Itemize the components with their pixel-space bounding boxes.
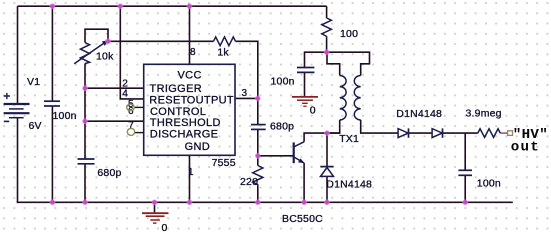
junction threshold node [82, 118, 88, 124]
svg-text:1k: 1k [217, 46, 229, 58]
svg-text:D1N4148: D1N4148 [326, 178, 372, 190]
svg-text:out: out [511, 139, 540, 155]
svg-text:V1: V1 [27, 76, 40, 88]
resistor R2 1k [214, 37, 236, 46]
wire pot bottom to cap 680p C2 and rail [84, 64, 86, 203]
junction rail at C5 [462, 199, 468, 205]
svg-text:7555: 7555 [212, 157, 236, 169]
wire 3.9meg to HV port [500, 132, 507, 134]
svg-text:0: 0 [162, 222, 168, 234]
wire base node down through R 220 to rail [257, 156, 259, 203]
wire pin3 node down through C3 680p to base node [257, 98, 259, 155]
wire pin 3 OUTPUT stub [235, 97, 258, 99]
wire C4 100n bottom to ground 0 [304, 73, 306, 97]
wire transformer primary bottom stub [326, 120, 340, 133]
resistor R3 220 [253, 166, 263, 187]
wire C5 100n bottom lead to rail [464, 175, 466, 202]
capacitor C4 100n [297, 68, 314, 73]
timer IC U1 7555 box [144, 64, 235, 155]
junction rail at D1 [324, 199, 330, 205]
ground 0 (near C4) [292, 97, 318, 106]
svg-text:100n: 100n [271, 76, 295, 88]
junction rail at C2 bottom [82, 199, 88, 205]
junction rail at C1 bottom [49, 199, 55, 205]
wire RESET drop from rail to pin 4 [120, 6, 143, 99]
wire transistor emitter down to rail [303, 163, 305, 202]
wire battery bottom lead [17, 118, 19, 203]
svg-text:100n: 100n [477, 177, 501, 189]
interface port HV [508, 131, 513, 136]
wire transformer secondary bottom to diode chain [361, 120, 398, 133]
svg-text:RESET: RESET [149, 94, 187, 106]
svg-text:4: 4 [122, 89, 128, 100]
svg-text:1: 1 [188, 167, 194, 178]
junction base node [255, 153, 261, 159]
diode D3 1N4148 horizontal [398, 129, 408, 138]
svg-text:TRIGGER: TRIGGER [150, 83, 203, 95]
junction top rail at C1 [49, 3, 55, 9]
junction node A wiper [105, 38, 111, 44]
capacitor C2 680p [78, 159, 95, 164]
svg-text:8: 8 [190, 47, 196, 58]
wire VCC drop from rail to pin 8 [189, 6, 191, 64]
transformer TX1 secondary winding [354, 76, 360, 120]
wire C1 100n bottom lead [51, 106, 53, 202]
svg-text:100: 100 [340, 28, 358, 40]
wire pin 6 THRESHOLD to node [85, 120, 144, 122]
svg-text:D1N4148: D1N4148 [396, 108, 442, 120]
svg-text:10k: 10k [96, 51, 114, 63]
svg-text:6: 6 [128, 106, 134, 117]
junction rail at ground [151, 199, 157, 205]
transistor emitter arrowhead [298, 158, 305, 163]
transistor Q1 BC550C [294, 142, 304, 163]
svg-text:THRESHOLD: THRESHOLD [150, 117, 221, 129]
wire transistor collector up to transformer primary bottom [304, 133, 340, 142]
svg-text:680p: 680p [270, 120, 294, 132]
svg-text:GND: GND [185, 141, 211, 153]
wire bottom ground rail [17, 201, 513, 203]
junction rail at pin1 [186, 199, 192, 205]
wire diode D1 top lead from junction [326, 133, 328, 166]
wire C1 100n top lead [51, 6, 53, 101]
svg-text:6V: 6V [29, 120, 42, 132]
junction node B resistor 100 [323, 49, 329, 55]
wire battery top lead [17, 6, 19, 104]
ground 0 (bottom) [142, 202, 169, 223]
wire base node to transistor base [258, 155, 293, 157]
wire diode D1 bottom lead to rail [326, 177, 328, 203]
resistor R5 3.9meg [478, 129, 501, 138]
wire node A horizontal (wiper to 1k to pin3 drop) [108, 41, 258, 98]
capacitor C3 680p [251, 125, 266, 130]
svg-text:TX1: TX1 [339, 133, 359, 145]
junction pin3 node [255, 95, 261, 101]
svg-text:220: 220 [240, 176, 258, 188]
wire R 100 bottom lead to node B [326, 38, 328, 52]
pin 5 no-connect stub and marker [134, 106, 144, 108]
junction collector node [324, 130, 330, 136]
wire node B horizontal with C4 drop [305, 52, 370, 75]
pot wiper arrowhead [102, 40, 108, 46]
diode D1 1N4148 vertical [320, 166, 333, 168]
junction trigger node [82, 85, 88, 91]
svg-text:OUTPUT: OUTPUT [187, 94, 234, 106]
svg-text:3: 3 [242, 88, 248, 99]
svg-text:DISCHARGE: DISCHARGE [150, 129, 219, 141]
wire diode D4 to 3.9meg with C5 drop [443, 133, 478, 170]
wire pot top loop to wiper junction [85, 29, 108, 42]
diode D4 1N4148 horizontal [432, 129, 442, 138]
wire pin 1 GND to rail [189, 155, 191, 202]
svg-text:3.9meg: 3.9meg [466, 108, 502, 120]
wire transformer primary top bracket [327, 52, 340, 75]
potentiometer 10k [74, 42, 106, 64]
svg-text:100n: 100n [53, 110, 77, 122]
junction rail at emitter [301, 199, 307, 205]
wire between diodes D3 D4 [409, 132, 432, 134]
transformer TX1 primary winding [340, 76, 346, 120]
wire top rail from battery to R 100 [18, 5, 327, 7]
capacitor C5 100n [458, 170, 472, 175]
capacitor C1 100n [44, 101, 60, 106]
svg-text:7: 7 [128, 121, 134, 132]
junction top rail at reset drop [117, 3, 123, 9]
wire R 100 top lead from rail [326, 6, 328, 18]
resistor R4 100 [322, 18, 332, 38]
wire pin 2 TRIGGER to node [85, 87, 144, 89]
svg-text:CONTROL: CONTROL [150, 106, 206, 118]
battery V1 [4, 93, 30, 122]
pin 7 no-connect stub and marker [135, 132, 144, 134]
junction top rail at vcc drop [186, 3, 192, 9]
svg-text:BC550C: BC550C [282, 213, 323, 225]
svg-text:VCC: VCC [178, 69, 202, 81]
svg-text:0: 0 [310, 104, 316, 116]
svg-text:680p: 680p [97, 167, 121, 179]
junction rail at R220 [255, 199, 261, 205]
